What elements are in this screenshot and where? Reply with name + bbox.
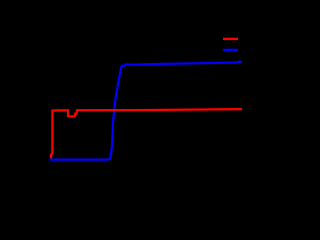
red trace [51,109,242,158]
blue trace [50,62,242,160]
legend sample blue [223,49,238,51]
waveform plot [0,0,258,199]
legend sample red [223,38,238,40]
